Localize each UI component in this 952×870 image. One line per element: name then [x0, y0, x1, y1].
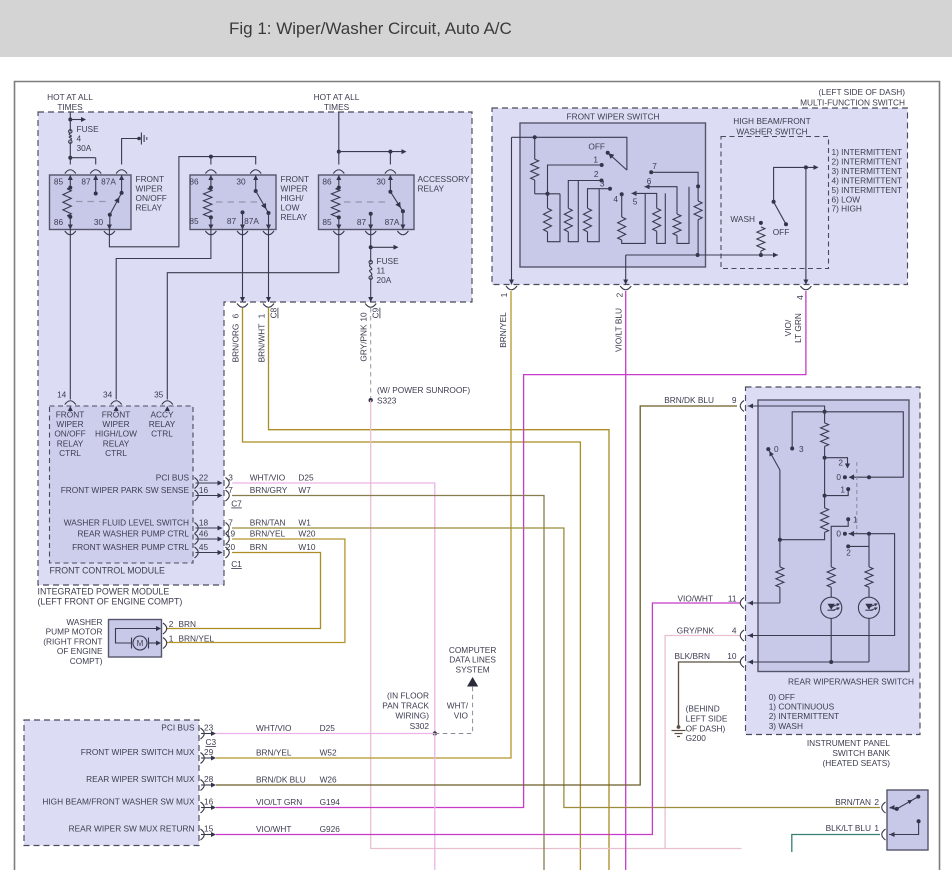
MFS pin 4 exit — [803, 280, 808, 285]
svg-text:0: 0 — [836, 472, 841, 482]
svg-text:VIO/WHT: VIO/WHT — [256, 824, 292, 834]
splice S323 — [369, 398, 373, 402]
resistor ladder R6 — [673, 214, 681, 236]
svg-text:G200: G200 — [686, 733, 707, 743]
svg-text:2: 2 — [169, 619, 174, 629]
svg-text:RELAY: RELAY — [418, 184, 445, 194]
wire to K3 pin 30 — [389, 152, 391, 165]
svg-text:34: 34 — [103, 390, 113, 400]
svg-text:WIPER: WIPER — [136, 184, 163, 194]
svg-text:WASHER SWITCH: WASHER SWITCH — [736, 127, 807, 137]
washer pump pin 1 exit — [163, 638, 167, 649]
resistor ladder R7 — [694, 201, 702, 220]
svg-text:29: 29 — [204, 747, 214, 757]
svg-text:VIO: VIO — [454, 711, 469, 721]
svg-text:C7: C7 — [231, 499, 242, 509]
wire BRN/GRY FCM-7 W7 down off page — [232, 496, 544, 870]
svg-text:35: 35 — [154, 390, 164, 400]
wire VIO/LT GRN MFS-4 to PCI 16 — [216, 291, 806, 808]
svg-text:WHT/VIO: WHT/VIO — [256, 723, 292, 733]
contact 3 and tap — [608, 187, 612, 191]
svg-text:23: 23 — [204, 723, 214, 733]
instrument switch wire pin1 — [889, 821, 919, 834]
instrument switch arm pin2 — [890, 808, 897, 809]
svg-text:1: 1 — [257, 313, 267, 318]
washer pump motor symbol — [133, 636, 147, 650]
svg-text:85: 85 — [54, 177, 64, 187]
wire VIO/WHT rear pin11 to PCI 15 G926 — [216, 603, 741, 835]
svg-text:WASHER FLUID LEVEL SWITCH: WASHER FLUID LEVEL SWITCH — [64, 517, 189, 527]
svg-text:1) CONTINUOUS: 1) CONTINUOUS — [769, 702, 835, 712]
resistor R pole A lower — [776, 567, 784, 587]
HB switch arm — [774, 202, 786, 225]
resistor ladder R3 — [584, 208, 592, 231]
wire K2 pin85 to FCM pin34 — [116, 230, 211, 400]
svg-text:HIGH/LOW: HIGH/LOW — [95, 429, 137, 439]
wire K3 pin87 via fuse F11 — [370, 230, 372, 263]
svg-text:HIGH BEAM/FRONT: HIGH BEAM/FRONT — [733, 116, 810, 126]
svg-text:2: 2 — [874, 797, 879, 807]
svg-text:BRN/YEL: BRN/YEL — [179, 633, 215, 643]
svg-text:CTRL: CTRL — [151, 429, 173, 439]
svg-text:0: 0 — [836, 529, 841, 539]
svg-text:1: 1 — [169, 633, 174, 643]
LED 2 — [858, 597, 879, 618]
wire K3 pin85 to FCM pin35 — [167, 230, 338, 400]
svg-text:FRONT WIPER PARK SW SENSE: FRONT WIPER PARK SW SENSE — [61, 485, 190, 495]
svg-text:HOT AT ALL: HOT AT ALL — [314, 92, 360, 102]
svg-text:3: 3 — [799, 444, 804, 454]
svg-text:ACCY: ACCY — [150, 410, 174, 420]
svg-text:CTRL: CTRL — [59, 448, 81, 458]
svg-text:2: 2 — [594, 169, 599, 179]
washer pump motor solid box — [109, 620, 162, 658]
svg-text:3: 3 — [600, 179, 605, 189]
svg-text:87: 87 — [357, 217, 367, 227]
svg-text:REAR WIPER SW MUX RETURN: REAR WIPER SW MUX RETURN — [69, 824, 195, 834]
svg-text:BRN: BRN — [179, 619, 197, 629]
svg-text:3) WASH: 3) WASH — [769, 721, 803, 731]
svg-text:(W/ POWER SUNROOF): (W/ POWER SUNROOF) — [377, 385, 470, 395]
FWS top bus wire — [512, 137, 627, 170]
wire hot feed 1 from top — [69, 112, 71, 131]
svg-text:87A: 87A — [101, 177, 116, 187]
svg-text:15: 15 — [204, 824, 214, 834]
svg-text:BRN/YEL: BRN/YEL — [250, 529, 286, 539]
front wiper switch solid box — [520, 123, 706, 267]
svg-text:30: 30 — [236, 177, 246, 187]
rear switch rotary arm pole A — [766, 447, 770, 451]
relay K3 contact 87 stub — [370, 214, 372, 230]
PCI bus module dashed container (bottom left) — [24, 720, 199, 846]
svg-text:1: 1 — [840, 485, 845, 495]
connector C9 pin10 exit — [368, 297, 373, 302]
FCM pin 34 entry — [114, 406, 119, 411]
svg-text:BRN/DK BLU: BRN/DK BLU — [256, 775, 306, 785]
resistor ladder R4 — [618, 217, 626, 240]
svg-text:86: 86 — [189, 177, 199, 187]
wire BRN FCM-20 W10 to washer pump pin2 — [166, 553, 321, 629]
svg-text:LOW: LOW — [281, 203, 300, 213]
wire K1 pin86 to FCM pin14 — [69, 230, 71, 400]
svg-text:COMPUTER: COMPUTER — [449, 645, 496, 655]
wire WHT/VIO PCI 23 row and off page — [216, 733, 435, 735]
svg-text:46: 46 — [199, 528, 209, 538]
splice S302 — [433, 731, 437, 735]
svg-text:ACCESSORY: ACCESSORY — [418, 174, 470, 184]
svg-text:G926: G926 — [320, 824, 341, 834]
contact 2 and tap — [600, 179, 604, 183]
svg-text:87A: 87A — [385, 217, 400, 227]
node line contact 3 — [792, 412, 903, 477]
svg-text:20: 20 — [226, 542, 236, 552]
relay K2 box (front wiper high/low) — [190, 175, 276, 230]
svg-text:2: 2 — [615, 292, 625, 297]
wire WHT/VIO FCM-3 to splice S302 — [232, 483, 435, 734]
svg-text:G194: G194 — [320, 797, 341, 807]
FWS node line — [535, 193, 560, 195]
svg-text:VIO/LT GRN: VIO/LT GRN — [256, 797, 302, 807]
svg-text:(IN FLOOR: (IN FLOOR — [387, 691, 429, 701]
relay K3 box (accessory relay) — [319, 175, 415, 230]
svg-text:16: 16 — [204, 797, 214, 807]
svg-text:2: 2 — [846, 548, 851, 558]
svg-text:85: 85 — [189, 216, 199, 226]
svg-text:GRY/PNK: GRY/PNK — [677, 626, 715, 636]
svg-text:OF ENGINE: OF ENGINE — [57, 646, 103, 656]
svg-text:WHT/: WHT/ — [447, 701, 469, 711]
wire relay K1 87A to ground — [122, 139, 138, 165]
wire BRN/YEL FCM-19 W20 to washer pump pin1 — [166, 539, 345, 643]
svg-text:6: 6 — [647, 176, 652, 186]
relay K1 dashed link — [76, 201, 106, 203]
wire GRY/PNK to rear switch pin4 — [371, 400, 742, 848]
resistor chain R-B — [824, 496, 826, 508]
relay K3 dashed link — [344, 201, 385, 203]
svg-text:REAR WASHER PUMP CTRL: REAR WASHER PUMP CTRL — [77, 528, 189, 538]
svg-text:COMPT): COMPT) — [70, 656, 103, 666]
resistor ladder R5 — [653, 208, 661, 231]
svg-text:86: 86 — [322, 177, 332, 187]
wire K2 pin87A to connector C8 (BRN/WHT) — [268, 230, 270, 303]
Integrated Power Module dashed container (L-shape) — [38, 112, 472, 585]
washer pump internal wiring — [116, 629, 158, 644]
FWS pin2 wire down — [625, 255, 627, 285]
svg-text:W26: W26 — [320, 775, 337, 785]
page header bar — [0, 0, 952, 57]
LED 1 — [821, 597, 842, 618]
svg-text:5: 5 — [633, 197, 638, 207]
svg-text:2: 2 — [838, 458, 843, 468]
svg-text:1: 1 — [593, 155, 598, 165]
svg-text:4: 4 — [795, 295, 805, 300]
wire K2 pin87 to connector C8 (BRN/ORG) — [242, 230, 244, 303]
svg-text:S323: S323 — [377, 396, 397, 406]
wire dashed to computer data lines — [435, 686, 473, 734]
svg-text:FRONT CONTROL MODULE: FRONT CONTROL MODULE — [50, 566, 165, 576]
svg-text:RELAY: RELAY — [136, 203, 163, 213]
wash resistor — [757, 227, 765, 251]
svg-text:7: 7 — [228, 485, 233, 495]
svg-text:PUMP MOTOR: PUMP MOTOR — [46, 627, 103, 637]
connector C8 pin1 exit — [266, 297, 271, 302]
contact 7 and tap — [649, 170, 653, 174]
dashed mechanical link — [856, 462, 858, 533]
resistor ladder R2 — [564, 208, 572, 231]
wire GRY/PNK C9-10 dashed sunroof portion — [370, 308, 372, 400]
svg-text:OFF: OFF — [588, 142, 605, 152]
svg-text:BRN/ORG: BRN/ORG — [231, 324, 241, 363]
wire 2B stub — [848, 545, 869, 547]
svg-text:FRONT: FRONT — [56, 410, 85, 420]
svg-text:BRN/TAN: BRN/TAN — [250, 518, 286, 528]
svg-text:WIRING): WIRING) — [395, 711, 429, 721]
svg-text:1: 1 — [499, 292, 509, 297]
connector C8 pin6 exit — [240, 297, 245, 302]
resistor R-LED1 — [827, 567, 835, 587]
svg-text:WHT/VIO: WHT/VIO — [250, 473, 286, 483]
svg-text:87: 87 — [227, 216, 237, 226]
relay K1 box (front wiper on/off) — [50, 175, 132, 230]
svg-text:4: 4 — [613, 194, 618, 204]
svg-text:18: 18 — [199, 517, 209, 527]
svg-text:BRN/TAN: BRN/TAN — [835, 797, 871, 807]
svg-text:REAR WIPER SWITCH MUX: REAR WIPER SWITCH MUX — [86, 774, 195, 784]
svg-text:DATA LINES: DATA LINES — [449, 655, 496, 665]
junction dot — [68, 118, 72, 122]
svg-text:3: 3 — [228, 472, 233, 482]
svg-text:(LEFT SIDE OF DASH): (LEFT SIDE OF DASH) — [818, 87, 905, 97]
svg-text:INSTRUMENT PANEL: INSTRUMENT PANEL — [807, 738, 891, 748]
svg-text:RELAY: RELAY — [103, 438, 130, 448]
svg-text:0: 0 — [774, 444, 779, 454]
relay K3 pins and contacts — [336, 175, 341, 180]
rear switch pin 11 exit — [740, 598, 744, 609]
junction dot — [388, 150, 392, 154]
FCM pin 14 entry — [68, 406, 73, 411]
svg-text:7) HIGH: 7) HIGH — [832, 204, 862, 214]
svg-text:LEFT SIDE: LEFT SIDE — [686, 714, 728, 724]
svg-text:2) INTERMITTENT: 2) INTERMITTENT — [769, 711, 840, 721]
svg-text:19: 19 — [226, 528, 236, 538]
svg-text:FUSE: FUSE — [77, 124, 100, 134]
relay K1 pins and contacts — [68, 175, 73, 180]
svg-text:C1: C1 — [231, 559, 242, 569]
svg-text:GRY/PNK: GRY/PNK — [359, 324, 369, 362]
svg-text:ON/OFF: ON/OFF — [54, 429, 85, 439]
relay K2 contact 30 stub — [255, 175, 257, 191]
contact 6 arrow and tap — [645, 184, 650, 189]
svg-text:OFF: OFF — [773, 227, 790, 237]
relay K2 contact 87 stub — [242, 212, 244, 229]
svg-text:FRONT: FRONT — [136, 174, 165, 184]
svg-text:ON/OFF: ON/OFF — [136, 193, 167, 203]
svg-text:WIPER: WIPER — [56, 419, 83, 429]
svg-text:HIGH BEAM/FRONT WASHER SW MUX: HIGH BEAM/FRONT WASHER SW MUX — [42, 797, 195, 807]
fuse F4 30A — [69, 130, 72, 133]
svg-text:SWITCH BANK: SWITCH BANK — [832, 748, 890, 758]
svg-text:28: 28 — [204, 774, 214, 784]
svg-text:C9: C9 — [371, 307, 381, 318]
FCM pin 35 entry — [165, 406, 170, 411]
wire BLK/LT BLU instrument pin1 off page — [792, 835, 880, 853]
svg-text:7: 7 — [228, 517, 233, 527]
svg-text:W20: W20 — [298, 529, 315, 539]
wire 0B to pin4 exit — [748, 534, 895, 636]
FWS rotary arm to OFF — [610, 154, 627, 170]
svg-text:85: 85 — [322, 217, 332, 227]
svg-text:W10: W10 — [298, 542, 315, 552]
svg-text:LT GRN: LT GRN — [793, 313, 803, 343]
svg-text:WASHER: WASHER — [66, 617, 102, 627]
wire VIO/LT BLU MFS-2 down off page — [625, 291, 627, 870]
svg-text:CTRL: CTRL — [105, 448, 127, 458]
relay K2 dashed link — [216, 201, 262, 203]
svg-text:BLK/BRN: BLK/BRN — [674, 651, 710, 661]
junction dot — [68, 156, 72, 160]
svg-text:HIGH/: HIGH/ — [281, 193, 305, 203]
svg-text:FRONT WASHER PUMP CTRL: FRONT WASHER PUMP CTRL — [72, 542, 189, 552]
wire fuse F11 to connector C9 — [370, 278, 372, 302]
resistor ladder R1 — [547, 194, 549, 209]
wire branch over relay K3 — [339, 151, 402, 153]
junction dot 0B — [867, 532, 871, 536]
MFS pin 2 exit — [623, 280, 628, 285]
svg-text:9: 9 — [732, 395, 737, 405]
svg-text:BLK/LT BLU: BLK/LT BLU — [826, 823, 871, 833]
rear switch pin 10 exit — [740, 657, 744, 668]
svg-text:WIPER: WIPER — [102, 419, 129, 429]
svg-text:11: 11 — [728, 594, 737, 604]
svg-text:6: 6 — [231, 313, 241, 318]
Front Control Module dashed box — [50, 406, 194, 563]
wire LED2 column top — [868, 534, 870, 567]
wire branch to pin 87 — [70, 157, 95, 159]
svg-text:FRONT WIPER SWITCH: FRONT WIPER SWITCH — [567, 112, 660, 122]
HB pin4 wire down — [805, 167, 807, 284]
svg-text:PAN TRACK: PAN TRACK — [382, 701, 429, 711]
svg-text:10: 10 — [359, 312, 369, 322]
wire relay K1 pin30 to relay K2 top bus — [109, 157, 255, 247]
relay K3 coil — [331, 189, 339, 216]
junction dot — [369, 245, 373, 249]
contact 2 tap with down arrow — [825, 458, 848, 464]
wire BRN/YEL MFS-1 to PCI 29 — [216, 291, 511, 758]
svg-text:INTEGRATED POWER MODULE: INTEGRATED POWER MODULE — [38, 587, 170, 597]
svg-text:MULTI-FUNCTION SWITCH: MULTI-FUNCTION SWITCH — [800, 98, 905, 108]
wire BRN/DK BLU PCI 28 W26 to rear switch pin9 — [216, 406, 737, 785]
svg-text:4: 4 — [77, 134, 82, 144]
contact 0 pole B — [843, 532, 847, 536]
svg-text:OF DASH): OF DASH) — [686, 724, 726, 734]
Rear wiper/washer switch bank dashed container — [746, 387, 921, 735]
svg-text:D25: D25 — [320, 723, 336, 733]
wire branch arrow right — [371, 246, 394, 248]
svg-text:87A: 87A — [244, 216, 259, 226]
wire BRN/ORG C8-6 to wiper motor — [243, 308, 581, 870]
svg-text:SYSTEM: SYSTEM — [456, 664, 490, 674]
svg-text:FRONT: FRONT — [102, 410, 131, 420]
svg-text:7: 7 — [652, 161, 657, 171]
svg-text:RELAY: RELAY — [149, 419, 176, 429]
svg-text:WIPER: WIPER — [281, 184, 308, 194]
Multi-Function Switch dashed container — [492, 108, 908, 285]
contact 1 tap — [825, 489, 849, 496]
svg-text:PCI BUS: PCI BUS — [161, 723, 195, 733]
relay K1 coil — [63, 189, 71, 216]
resistor R-LED2 — [865, 567, 873, 587]
computer data lines arrow — [467, 677, 478, 687]
FWS pin1 wire down — [511, 137, 513, 284]
washer pump pin 2 exit — [163, 623, 167, 634]
svg-text:VIO/: VIO/ — [783, 319, 793, 336]
wire BRN/WHT C8-1 to wiper motor — [269, 308, 610, 870]
WASH contact — [759, 221, 763, 225]
rear switch feed wire — [748, 406, 825, 412]
relay K3 armature 30-87A — [390, 192, 403, 212]
wire branch arrow right — [70, 119, 82, 121]
svg-text:20A: 20A — [377, 275, 392, 285]
svg-text:BRN/YEL: BRN/YEL — [256, 748, 292, 758]
svg-text:VIO/WHT: VIO/WHT — [678, 594, 714, 604]
svg-text:30: 30 — [376, 177, 386, 187]
svg-text:11: 11 — [377, 266, 386, 276]
svg-text:REAR WIPER/WASHER SWITCH: REAR WIPER/WASHER SWITCH — [788, 677, 914, 687]
relay K2 armature 30-87A — [256, 191, 269, 213]
instrument panel switch solid box — [887, 790, 928, 850]
svg-text:14: 14 — [57, 390, 67, 400]
svg-text:BRN/WHT: BRN/WHT — [257, 324, 267, 363]
svg-text:4: 4 — [732, 626, 737, 636]
svg-text:BRN/DK BLU: BRN/DK BLU — [664, 395, 714, 405]
svg-text:FRONT: FRONT — [281, 174, 310, 184]
contact 0 arrow pole A top — [867, 475, 871, 479]
BLK/BRN bus inside switch — [748, 661, 870, 663]
ground symbol top — [137, 137, 141, 141]
rear switch pin 4 exit — [740, 630, 744, 641]
ground G200 symbol — [677, 725, 681, 729]
svg-text:30A: 30A — [77, 143, 92, 153]
svg-text:WASH: WASH — [730, 214, 755, 224]
instrument switch pin 1 entry — [882, 829, 886, 840]
svg-text:16: 16 — [199, 485, 209, 495]
contact 4 and tap — [620, 192, 624, 196]
relay K2 pins and contacts — [208, 175, 213, 180]
svg-text:22: 22 — [199, 472, 209, 482]
svg-text:W7: W7 — [298, 485, 311, 495]
svg-text:86: 86 — [54, 217, 64, 227]
svg-text:30: 30 — [94, 217, 104, 227]
svg-text:(RIGHT FRONT: (RIGHT FRONT — [43, 636, 102, 646]
junction dot — [337, 150, 341, 154]
svg-text:BRN/YEL: BRN/YEL — [498, 312, 508, 348]
svg-text:FUSE: FUSE — [377, 256, 400, 266]
svg-text:C8: C8 — [269, 307, 279, 318]
contact 2 pole B — [846, 544, 850, 548]
wire fuse to relay K1 — [69, 142, 71, 165]
svg-text:W52: W52 — [320, 748, 337, 758]
svg-text:HOT AT ALL: HOT AT ALL — [47, 92, 93, 102]
fuse F11 20A — [369, 260, 372, 263]
svg-text:VIO/LT BLU: VIO/LT BLU — [614, 308, 624, 352]
junction dot — [209, 155, 213, 159]
svg-text:TIMES: TIMES — [57, 102, 83, 112]
relay K1 armature 30-87A — [109, 215, 111, 230]
relay K2 coil — [204, 189, 212, 216]
svg-text:87: 87 — [81, 177, 91, 187]
svg-text:RELAY: RELAY — [281, 212, 308, 222]
svg-text:PCI BUS: PCI BUS — [156, 472, 190, 482]
